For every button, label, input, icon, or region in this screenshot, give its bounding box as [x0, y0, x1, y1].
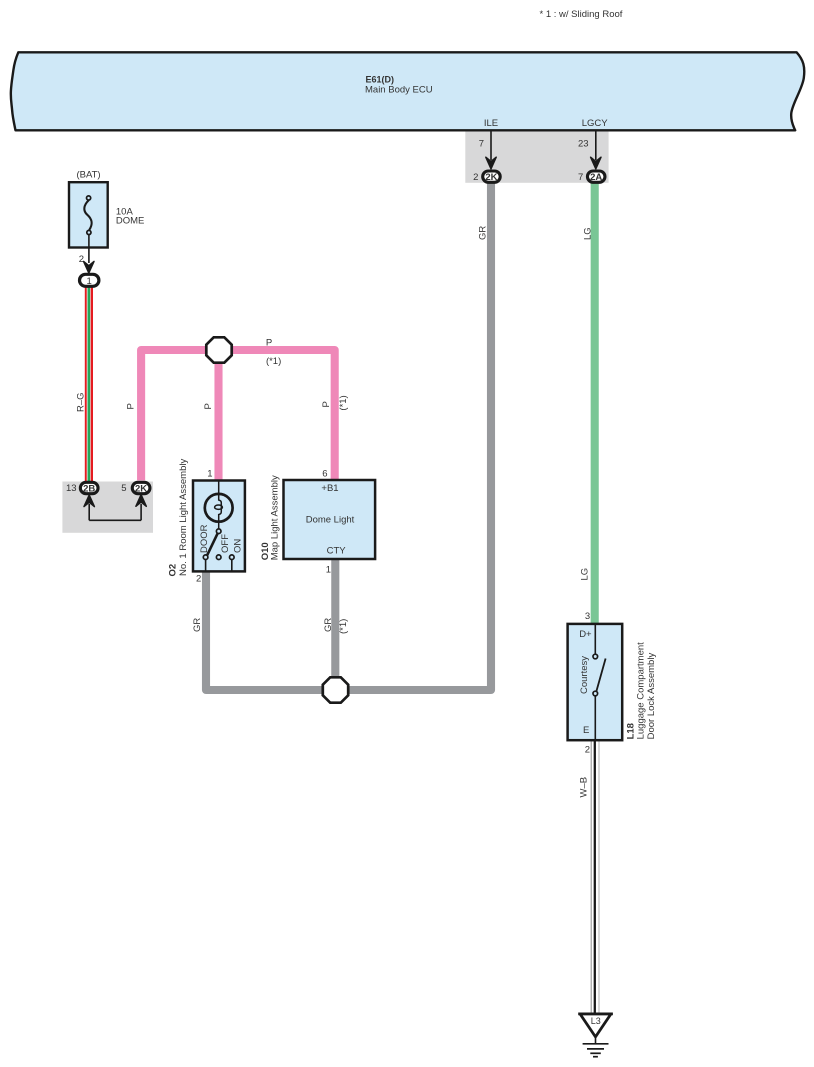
svg-text:ILE: ILE [484, 118, 498, 129]
svg-text:CTY: CTY [327, 545, 347, 556]
svg-text:* 1 : w/ Sliding Roof: * 1 : w/ Sliding Roof [540, 9, 623, 20]
svg-text:DOME: DOME [116, 216, 144, 227]
svg-text:LGCY: LGCY [582, 118, 609, 129]
svg-text:1: 1 [207, 468, 212, 479]
svg-text:Dome Light: Dome Light [306, 514, 355, 525]
svg-text:+B1: +B1 [321, 483, 338, 494]
svg-text:2: 2 [79, 254, 84, 265]
svg-text:Courtesy: Courtesy [579, 656, 590, 694]
svg-text:3: 3 [585, 611, 590, 622]
svg-text:Map Light Assembly: Map Light Assembly [270, 475, 281, 560]
svg-text:LG: LG [580, 568, 591, 581]
svg-text:(*1): (*1) [338, 395, 349, 410]
svg-text:R–G: R–G [76, 392, 87, 412]
svg-text:6: 6 [322, 468, 327, 479]
svg-text:1: 1 [326, 564, 331, 575]
svg-text:2K: 2K [135, 483, 147, 494]
svg-text:D+: D+ [579, 629, 592, 640]
svg-text:(BAT): (BAT) [76, 170, 100, 181]
svg-text:ON: ON [233, 539, 244, 553]
svg-text:5: 5 [121, 483, 126, 494]
svg-text:LG: LG [583, 227, 594, 240]
svg-text:No. 1 Room Light Assembly: No. 1 Room Light Assembly [178, 459, 189, 576]
svg-text:13: 13 [66, 483, 77, 494]
svg-text:OFF: OFF [220, 534, 231, 553]
svg-text:GR: GR [323, 618, 334, 632]
svg-text:2B: 2B [83, 483, 95, 494]
svg-text:L3: L3 [591, 1016, 601, 1026]
svg-text:DOOR: DOOR [199, 524, 210, 553]
svg-text:Main Body ECU: Main Body ECU [365, 84, 433, 95]
svg-text:1: 1 [87, 276, 92, 287]
svg-text:2: 2 [473, 172, 478, 183]
svg-text:P: P [266, 338, 272, 349]
svg-text:2K: 2K [485, 172, 497, 183]
svg-text:P: P [321, 401, 332, 407]
svg-text:23: 23 [578, 139, 589, 150]
svg-text:2A: 2A [590, 172, 602, 183]
svg-text:E: E [583, 725, 589, 736]
svg-text:GR: GR [478, 226, 489, 240]
svg-text:2: 2 [585, 745, 590, 756]
svg-text:O2: O2 [168, 564, 179, 577]
svg-text:W–B: W–B [579, 777, 590, 798]
svg-text:P: P [125, 403, 136, 409]
svg-text:Door Lock Assembly: Door Lock Assembly [646, 653, 657, 740]
svg-text:E61(D): E61(D) [366, 74, 395, 84]
svg-text:7: 7 [578, 172, 583, 183]
svg-text:GR: GR [192, 618, 203, 632]
svg-text:P: P [203, 403, 214, 409]
svg-text:(*1): (*1) [338, 619, 349, 634]
svg-text:2: 2 [196, 574, 201, 585]
svg-text:(*1): (*1) [266, 356, 281, 367]
svg-text:7: 7 [479, 139, 484, 150]
